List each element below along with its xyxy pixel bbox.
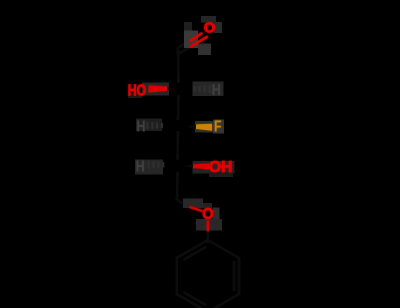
bond C4-C5 (176, 172, 179, 200)
backbone bonds (near-invisible dark) (177, 41, 208, 243)
bond O6-C1' dark half (207, 230, 210, 243)
bond C1-C2 (177, 48, 180, 83)
jpeg artifact halo blocks (128, 16, 235, 231)
bond C1=O dark halves (178, 41, 191, 48)
bond C3-C4 (176, 131, 179, 160)
bond C5-O6 dark half (177, 200, 190, 207)
bond C2-C3 (177, 95, 180, 120)
benzene ring C1'-C6' (near-invisible black-on-black, clipped at bottom) (177, 240, 239, 308)
